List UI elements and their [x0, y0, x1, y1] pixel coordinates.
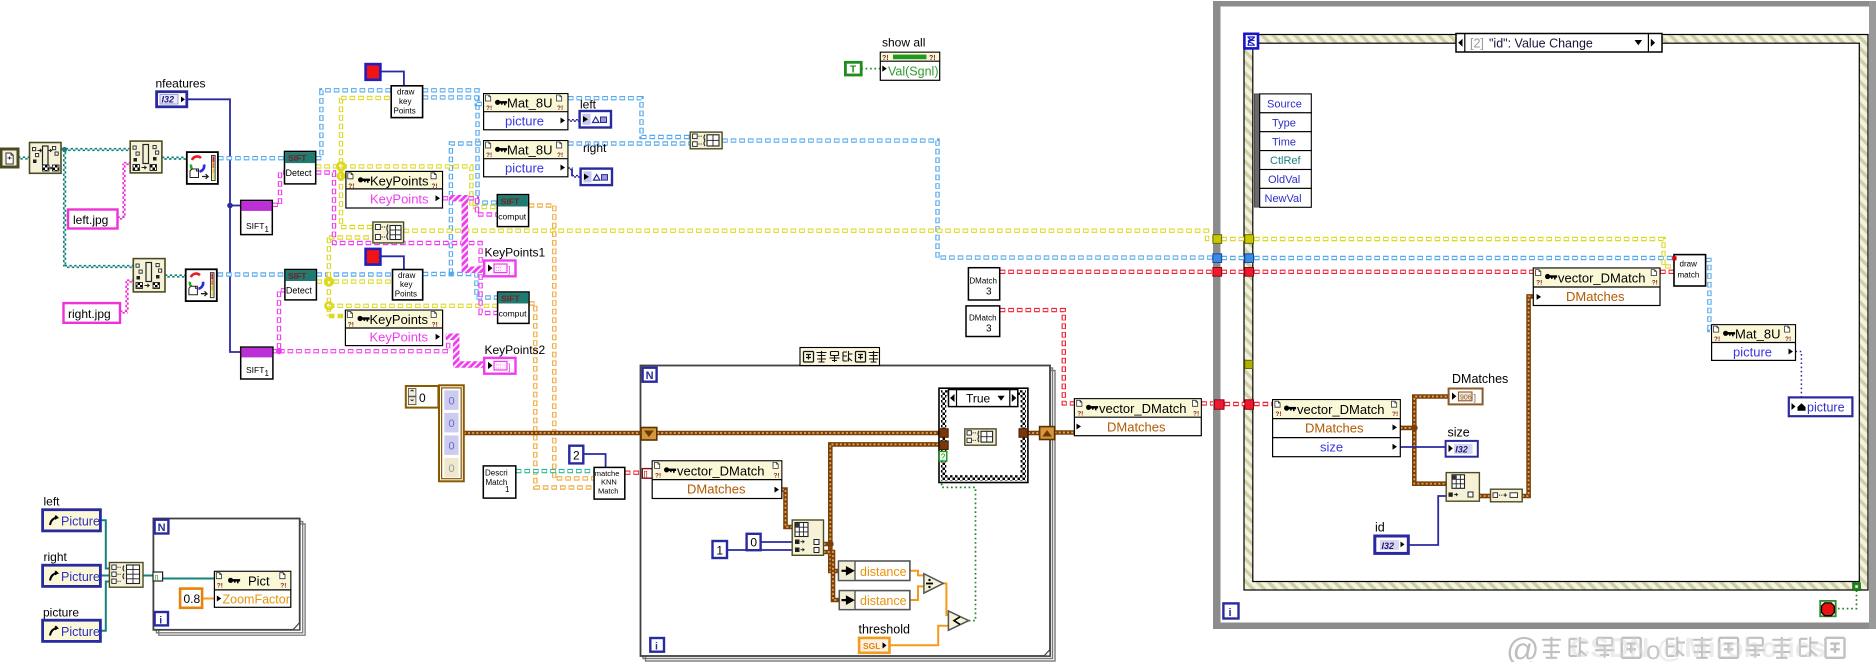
- svg-text:KeyPoints: KeyPoints: [370, 192, 429, 207]
- svg-text:?!: ?!: [774, 473, 780, 480]
- svg-text:3: 3: [986, 287, 992, 298]
- svg-text:?!: ?!: [1785, 336, 1791, 343]
- svg-text:1: 1: [265, 225, 270, 234]
- tunnels on event border: [1245, 235, 1254, 244]
- KeyPoints2 indicator: [484, 358, 515, 374]
- wire path node3 to imread2: [165, 274, 187, 276]
- Mat_8U property node 2: [484, 141, 568, 177]
- svg-text:[]: []: [644, 471, 648, 478]
- svg-text:0.8: 0.8: [184, 592, 201, 606]
- svg-text:I32: I32: [1382, 541, 1395, 551]
- keypoints build array node: [373, 222, 404, 243]
- SIFT comput vi 2: [498, 292, 529, 323]
- svg-text:picture: picture: [505, 114, 544, 129]
- svg-text:DMatches: DMatches: [1566, 289, 1625, 304]
- SIFT Detect vi 2: [285, 270, 317, 300]
- svg-text:left: left: [44, 495, 61, 509]
- left Picture ref control: [43, 510, 101, 531]
- matche KNN Match vi box: [594, 467, 625, 499]
- svg-text:distance: distance: [860, 594, 907, 608]
- svg-text:DMatch: DMatch: [969, 277, 997, 286]
- string constant right.jpg: [64, 303, 121, 323]
- svg-text:i: i: [159, 614, 162, 626]
- event selector label: [1456, 34, 1662, 53]
- svg-text:show all: show all: [882, 36, 925, 50]
- in-event build array small node: [1491, 489, 1523, 502]
- picture indicator right: [581, 169, 612, 186]
- bottom for-loop i terminal: [155, 612, 168, 626]
- svg-text:]: ]: [1474, 393, 1477, 403]
- filter for-loop frame (匹配结果删选): [641, 366, 1056, 662]
- svg-text:right.jpg: right.jpg: [68, 307, 111, 321]
- picture indicator (event): [1789, 397, 1853, 416]
- svg-text:SIFT: SIFT: [501, 196, 520, 206]
- svg-text:KeyPoints: KeyPoints: [370, 330, 429, 345]
- index const 0: [747, 534, 761, 550]
- svg-text:?!: ?!: [1714, 336, 1720, 343]
- wire stop green dotted: [1836, 590, 1857, 608]
- svg-text:ZoomFactor: ZoomFactor: [223, 592, 290, 606]
- svg-text:Mat_8U: Mat_8U: [507, 96, 553, 111]
- imread icon 1: [187, 152, 218, 184]
- svg-text:2: 2: [573, 449, 580, 463]
- svg-text:?!: ?!: [1392, 411, 1398, 418]
- svg-text:?: ?: [941, 453, 946, 462]
- svg-text:Pict: Pict: [248, 574, 270, 589]
- T boolean constant: [845, 62, 861, 75]
- show all Val(Sgnl) property node: [880, 52, 939, 80]
- index array node: [792, 520, 823, 555]
- filter loop N terminal: [643, 368, 657, 383]
- svg-text:DMatches: DMatches: [1305, 420, 1364, 435]
- svg-text:0: 0: [449, 418, 455, 430]
- wire path branch down to node3: [63, 150, 65, 267]
- wire DMatches to index brown: [782, 490, 792, 528]
- wire stop2 to drawkey2: [380, 256, 404, 269]
- wire keypoints yellow chains: [316, 166, 498, 207]
- bottom loop auto-index tunnel: [153, 572, 163, 581]
- svg-text:vector_DMatch: vector_DMatch: [677, 464, 764, 479]
- Pict property node: [214, 571, 290, 607]
- svg-text:KeyPoints1: KeyPoints1: [485, 246, 546, 260]
- svg-text:@: @: [1506, 631, 1540, 662]
- svg-text:draw: draw: [1680, 260, 1698, 269]
- svg-text:0: 0: [449, 396, 455, 408]
- svg-text:I32: I32: [162, 95, 175, 105]
- svg-text:draw: draw: [397, 88, 415, 97]
- svg-text:KNN: KNN: [601, 478, 617, 487]
- svg-text:?!: ?!: [557, 105, 563, 112]
- svg-text:picture: picture: [1733, 345, 1772, 360]
- wire matcher teal-green chain: [516, 469, 594, 473]
- DMatch3 vi box 2: [966, 306, 1000, 337]
- KeyPoints property node 1: [346, 171, 443, 208]
- svg-text:DMatch: DMatch: [969, 314, 997, 323]
- init array index spinner: [406, 386, 439, 408]
- wire path: strip out to build-path nodes: [61, 148, 130, 150]
- NODES: [1, 64, 722, 379]
- svg-text:CSDN @Mirobotics: CSDN @Mirobotics: [1570, 632, 1826, 662]
- wire init array brown rope: [464, 431, 641, 436]
- picture Picture ref control: [43, 620, 101, 641]
- svg-text:Picture: Picture: [61, 625, 100, 639]
- svg-text:1: 1: [505, 485, 510, 494]
- while loop frame: [1213, 1, 1876, 629]
- svg-text:picture: picture: [505, 161, 544, 176]
- svg-text:vector_DMatch: vector_DMatch: [1099, 401, 1186, 416]
- SIFT1 vi block 1: [241, 200, 273, 234]
- svg-text:Descri: Descri: [485, 469, 508, 478]
- svg-text:?!: ?!: [217, 583, 223, 590]
- draw match vi box: [1672, 255, 1705, 286]
- svg-text:True: True: [966, 392, 991, 406]
- wire appended-array brown to case: [830, 444, 939, 544]
- unbundle distance 2: [839, 591, 910, 610]
- right shift register: [1040, 427, 1055, 440]
- svg-text:?!: ?!: [432, 322, 438, 329]
- divide node: [924, 574, 943, 593]
- in-case build array node: [965, 429, 996, 445]
- svg-text:1: 1: [716, 543, 723, 557]
- svg-text:i: i: [1229, 607, 1232, 619]
- wire compare green dotted: [942, 461, 976, 621]
- unbundle distance 1: [839, 561, 910, 581]
- svg-text:left.jpg: left.jpg: [73, 213, 108, 227]
- wire size navy thin: [1400, 446, 1445, 448]
- svg-text:?!: ?!: [1275, 411, 1281, 418]
- stop boolean red square 2: [366, 249, 381, 265]
- svg-text:SGL: SGL: [863, 641, 880, 651]
- svg-text:T: T: [850, 65, 856, 76]
- build path node 3: [133, 259, 165, 292]
- svg-text:?!: ?!: [1536, 280, 1542, 287]
- id I32 control: [1375, 536, 1409, 553]
- svg-text:picture: picture: [43, 606, 79, 620]
- strip path node: [30, 143, 62, 174]
- index const 1: [713, 541, 728, 558]
- svg-text:matche: matche: [595, 469, 620, 478]
- in-event vector_DMatch 3-row property node: [1273, 400, 1401, 457]
- svg-text:Picture: Picture: [61, 514, 100, 528]
- svg-text:?!: ?!: [486, 152, 492, 159]
- svg-text:906: 906: [1460, 394, 1472, 401]
- watermark bottom right: [1506, 631, 1845, 662]
- draw key points vi 1: [391, 86, 422, 118]
- svg-text:match: match: [1678, 271, 1700, 280]
- wire distance orange: [910, 571, 924, 576]
- wire k=2 navy: [583, 454, 605, 467]
- svg-text:1: 1: [265, 369, 270, 378]
- svg-text:N: N: [646, 370, 654, 382]
- svg-text:N: N: [158, 522, 166, 534]
- svg-text::::: :::: [496, 364, 502, 371]
- 0.8 SGL constant: [180, 589, 202, 608]
- init array constant column: [439, 385, 464, 481]
- wire picture refs teal: [100, 520, 109, 568]
- svg-text:[]: []: [155, 574, 159, 581]
- stop boolean red square 1: [366, 64, 381, 80]
- event data node: [1254, 94, 1311, 207]
- svg-text:?!: ?!: [280, 583, 286, 590]
- svg-text:Detect: Detect: [286, 168, 313, 178]
- svg-text:right: right: [583, 141, 607, 155]
- wire id navy: [1408, 496, 1446, 545]
- svg-text:NewVal: NewVal: [1265, 193, 1302, 205]
- vi path constant icon: [1, 149, 18, 167]
- case structure frame: [939, 388, 1028, 482]
- picture indicator left: [580, 111, 611, 128]
- svg-text:?!: ?!: [432, 183, 438, 190]
- Mat_8U property node 1: [484, 94, 568, 130]
- svg-text:?!: ?!: [1193, 410, 1199, 417]
- svg-text:?!: ?!: [557, 152, 563, 159]
- svg-text:0: 0: [750, 536, 757, 550]
- svg-text:nfeatures: nfeatures: [156, 77, 206, 91]
- svg-text:draw: draw: [398, 271, 416, 280]
- svg-text:Time: Time: [1272, 136, 1296, 148]
- wire SIFT object magenta chains: [272, 173, 284, 205]
- svg-text:Mat_8U: Mat_8U: [507, 143, 553, 158]
- svg-text:0: 0: [449, 441, 455, 453]
- svg-text:3: 3: [986, 324, 992, 335]
- less-than node: [948, 611, 968, 630]
- wire path node2 to imread1: [162, 156, 187, 158]
- imread icon 2: [186, 269, 217, 301]
- KeyPoints property node 2: [345, 310, 442, 346]
- stop tunnel green: [1853, 583, 1861, 591]
- SIFT Detect vi 1: [285, 151, 316, 184]
- svg-text:DMatches: DMatches: [1452, 372, 1508, 386]
- wire event brown DMatches: [1400, 397, 1448, 428]
- wire index consts navy: [761, 541, 793, 543]
- svg-text:threshold: threshold: [859, 623, 910, 637]
- svg-text:key: key: [399, 97, 411, 106]
- svg-text:SIFT: SIFT: [501, 294, 520, 304]
- svg-text:size: size: [1448, 426, 1470, 440]
- svg-text:]: ]: [508, 362, 511, 372]
- svg-text:SIFT: SIFT: [246, 221, 264, 231]
- svg-text:id: id: [1375, 521, 1385, 535]
- svg-text:?!: ?!: [348, 183, 354, 190]
- loop condition terminal: [1820, 601, 1836, 616]
- in-event index array node: [1446, 473, 1479, 502]
- svg-text:vector_DMatch: vector_DMatch: [1297, 402, 1384, 417]
- DMatches array indicator: [1449, 389, 1483, 405]
- event timeout terminal: [1244, 34, 1258, 49]
- svg-text:OldVal: OldVal: [1268, 174, 1300, 186]
- svg-text:SIFT: SIFT: [288, 271, 307, 281]
- wire stop1 to drawkey1: [380, 72, 404, 86]
- svg-text:Val(Sgnl): Val(Sgnl): [888, 65, 938, 79]
- wire descriptors orange chains: [529, 206, 595, 479]
- svg-text:?!: ?!: [882, 55, 889, 62]
- wire keypoints-array braided 1: [449, 198, 484, 269]
- wire keypoints-array braided 2: [446, 337, 484, 365]
- wire DMatch red chains: [625, 471, 643, 475]
- post-loop vector_DMatch property node: [1074, 399, 1201, 436]
- svg-text:i: i: [655, 641, 658, 653]
- bottom-left for-loop frame: [153, 519, 305, 636]
- svg-text:?!: ?!: [929, 55, 936, 62]
- svg-text:KeyPoints: KeyPoints: [370, 173, 429, 188]
- wire path: vi-path to strip node: [18, 156, 30, 158]
- svg-text:[2]: [2]: [1470, 36, 1484, 50]
- svg-text:right: right: [44, 550, 68, 564]
- svg-text:KeyPoints: KeyPoints: [370, 312, 429, 327]
- Mat_8U property node 3: [1712, 325, 1796, 361]
- svg-text:distance: distance: [860, 565, 907, 579]
- svg-text:Points: Points: [394, 107, 416, 116]
- DMatch3 vi box 1: [968, 268, 999, 300]
- svg-text:key: key: [400, 280, 412, 289]
- svg-text:]: ]: [508, 265, 511, 275]
- image build array node: [690, 132, 722, 149]
- KeyPoints1 indicator: [484, 261, 515, 277]
- k=2 int constant: [569, 446, 583, 464]
- svg-text:Source: Source: [1267, 99, 1302, 111]
- svg-text:Type: Type: [1272, 117, 1296, 129]
- wire picture indicator navy squiggles: [568, 119, 580, 121]
- svg-text:comput: comput: [498, 212, 527, 222]
- svg-text:?!: ?!: [1077, 410, 1083, 417]
- wire shiftreg brown main: [657, 431, 939, 436]
- wire T to Val(Sgnl) green dotted: [861, 68, 880, 70]
- svg-text:SIFT: SIFT: [246, 365, 264, 375]
- build path node 2: [130, 141, 162, 173]
- loop auto-index tunnel: [642, 469, 652, 479]
- svg-text:SIFT: SIFT: [288, 153, 307, 163]
- in-event vector_DMatch 2-row node: [1533, 268, 1660, 306]
- svg-text:DMatches: DMatches: [1107, 419, 1166, 434]
- string constant left.jpg: [68, 210, 118, 229]
- while loop i terminal: [1223, 603, 1238, 619]
- svg-text:size: size: [1320, 440, 1343, 455]
- picture refs build array node: [109, 563, 143, 588]
- threshold SGL constant: [859, 638, 889, 653]
- svg-text:?!: ?!: [1652, 280, 1658, 287]
- size I32 indicator: [1446, 441, 1478, 457]
- right Picture ref control: [43, 565, 101, 586]
- svg-text:vector_DMatch: vector_DMatch: [1558, 270, 1645, 285]
- svg-text:"id": Value Change: "id": Value Change: [1489, 36, 1593, 50]
- svg-text:?!: ?!: [655, 473, 661, 480]
- wire zoomfactor orange: [202, 598, 214, 600]
- svg-text::::: :::: [496, 266, 502, 273]
- title 匹配结果删选 label box: [800, 348, 880, 366]
- svg-text:0: 0: [419, 391, 426, 405]
- svg-text:picture: picture: [1807, 400, 1845, 414]
- svg-text:?!: ?!: [348, 322, 354, 329]
- wire nfeatures I32: [187, 99, 241, 352]
- case selector ? tunnel: [939, 451, 947, 461]
- svg-text:Points: Points: [395, 290, 417, 299]
- wire Mat8U image blue chains: [218, 156, 285, 160]
- draw key points vi 2: [393, 270, 423, 300]
- wire picture navy dotted: [1793, 352, 1801, 408]
- svg-text:Picture: Picture: [61, 570, 100, 584]
- filter loop i terminal: [650, 638, 664, 653]
- tunnels on while border: [1213, 235, 1222, 244]
- event structure hatched border: [1244, 35, 1868, 591]
- case tunnels brown: [940, 429, 949, 438]
- svg-text:0: 0: [449, 463, 455, 475]
- SIFT1 vi block 2: [241, 347, 273, 379]
- svg-text:Detect: Detect: [286, 286, 313, 296]
- in-loop vector_DMatch property node: [652, 461, 782, 499]
- left shift register: [641, 428, 657, 441]
- svg-text:I32: I32: [1455, 444, 1468, 454]
- svg-text:DMatches: DMatches: [687, 482, 746, 497]
- svg-text:Match: Match: [598, 487, 618, 496]
- svg-text:Mat_8U: Mat_8U: [1735, 327, 1781, 342]
- svg-text:left: left: [580, 98, 597, 112]
- svg-text:?!: ?!: [486, 105, 492, 112]
- wire string right.jpg: [120, 310, 128, 312]
- svg-text:CtlRef: CtlRef: [1270, 155, 1302, 167]
- svg-text:KeyPoints2: KeyPoints2: [485, 343, 546, 357]
- SIFT comput vi 1: [497, 195, 528, 227]
- svg-text:comput: comput: [499, 309, 528, 319]
- Descri Match vi box: [483, 466, 516, 498]
- bottom for-loop N terminal: [155, 520, 169, 534]
- wire string left.jpg: [118, 216, 125, 218]
- nfeatures I32 control: [157, 92, 187, 107]
